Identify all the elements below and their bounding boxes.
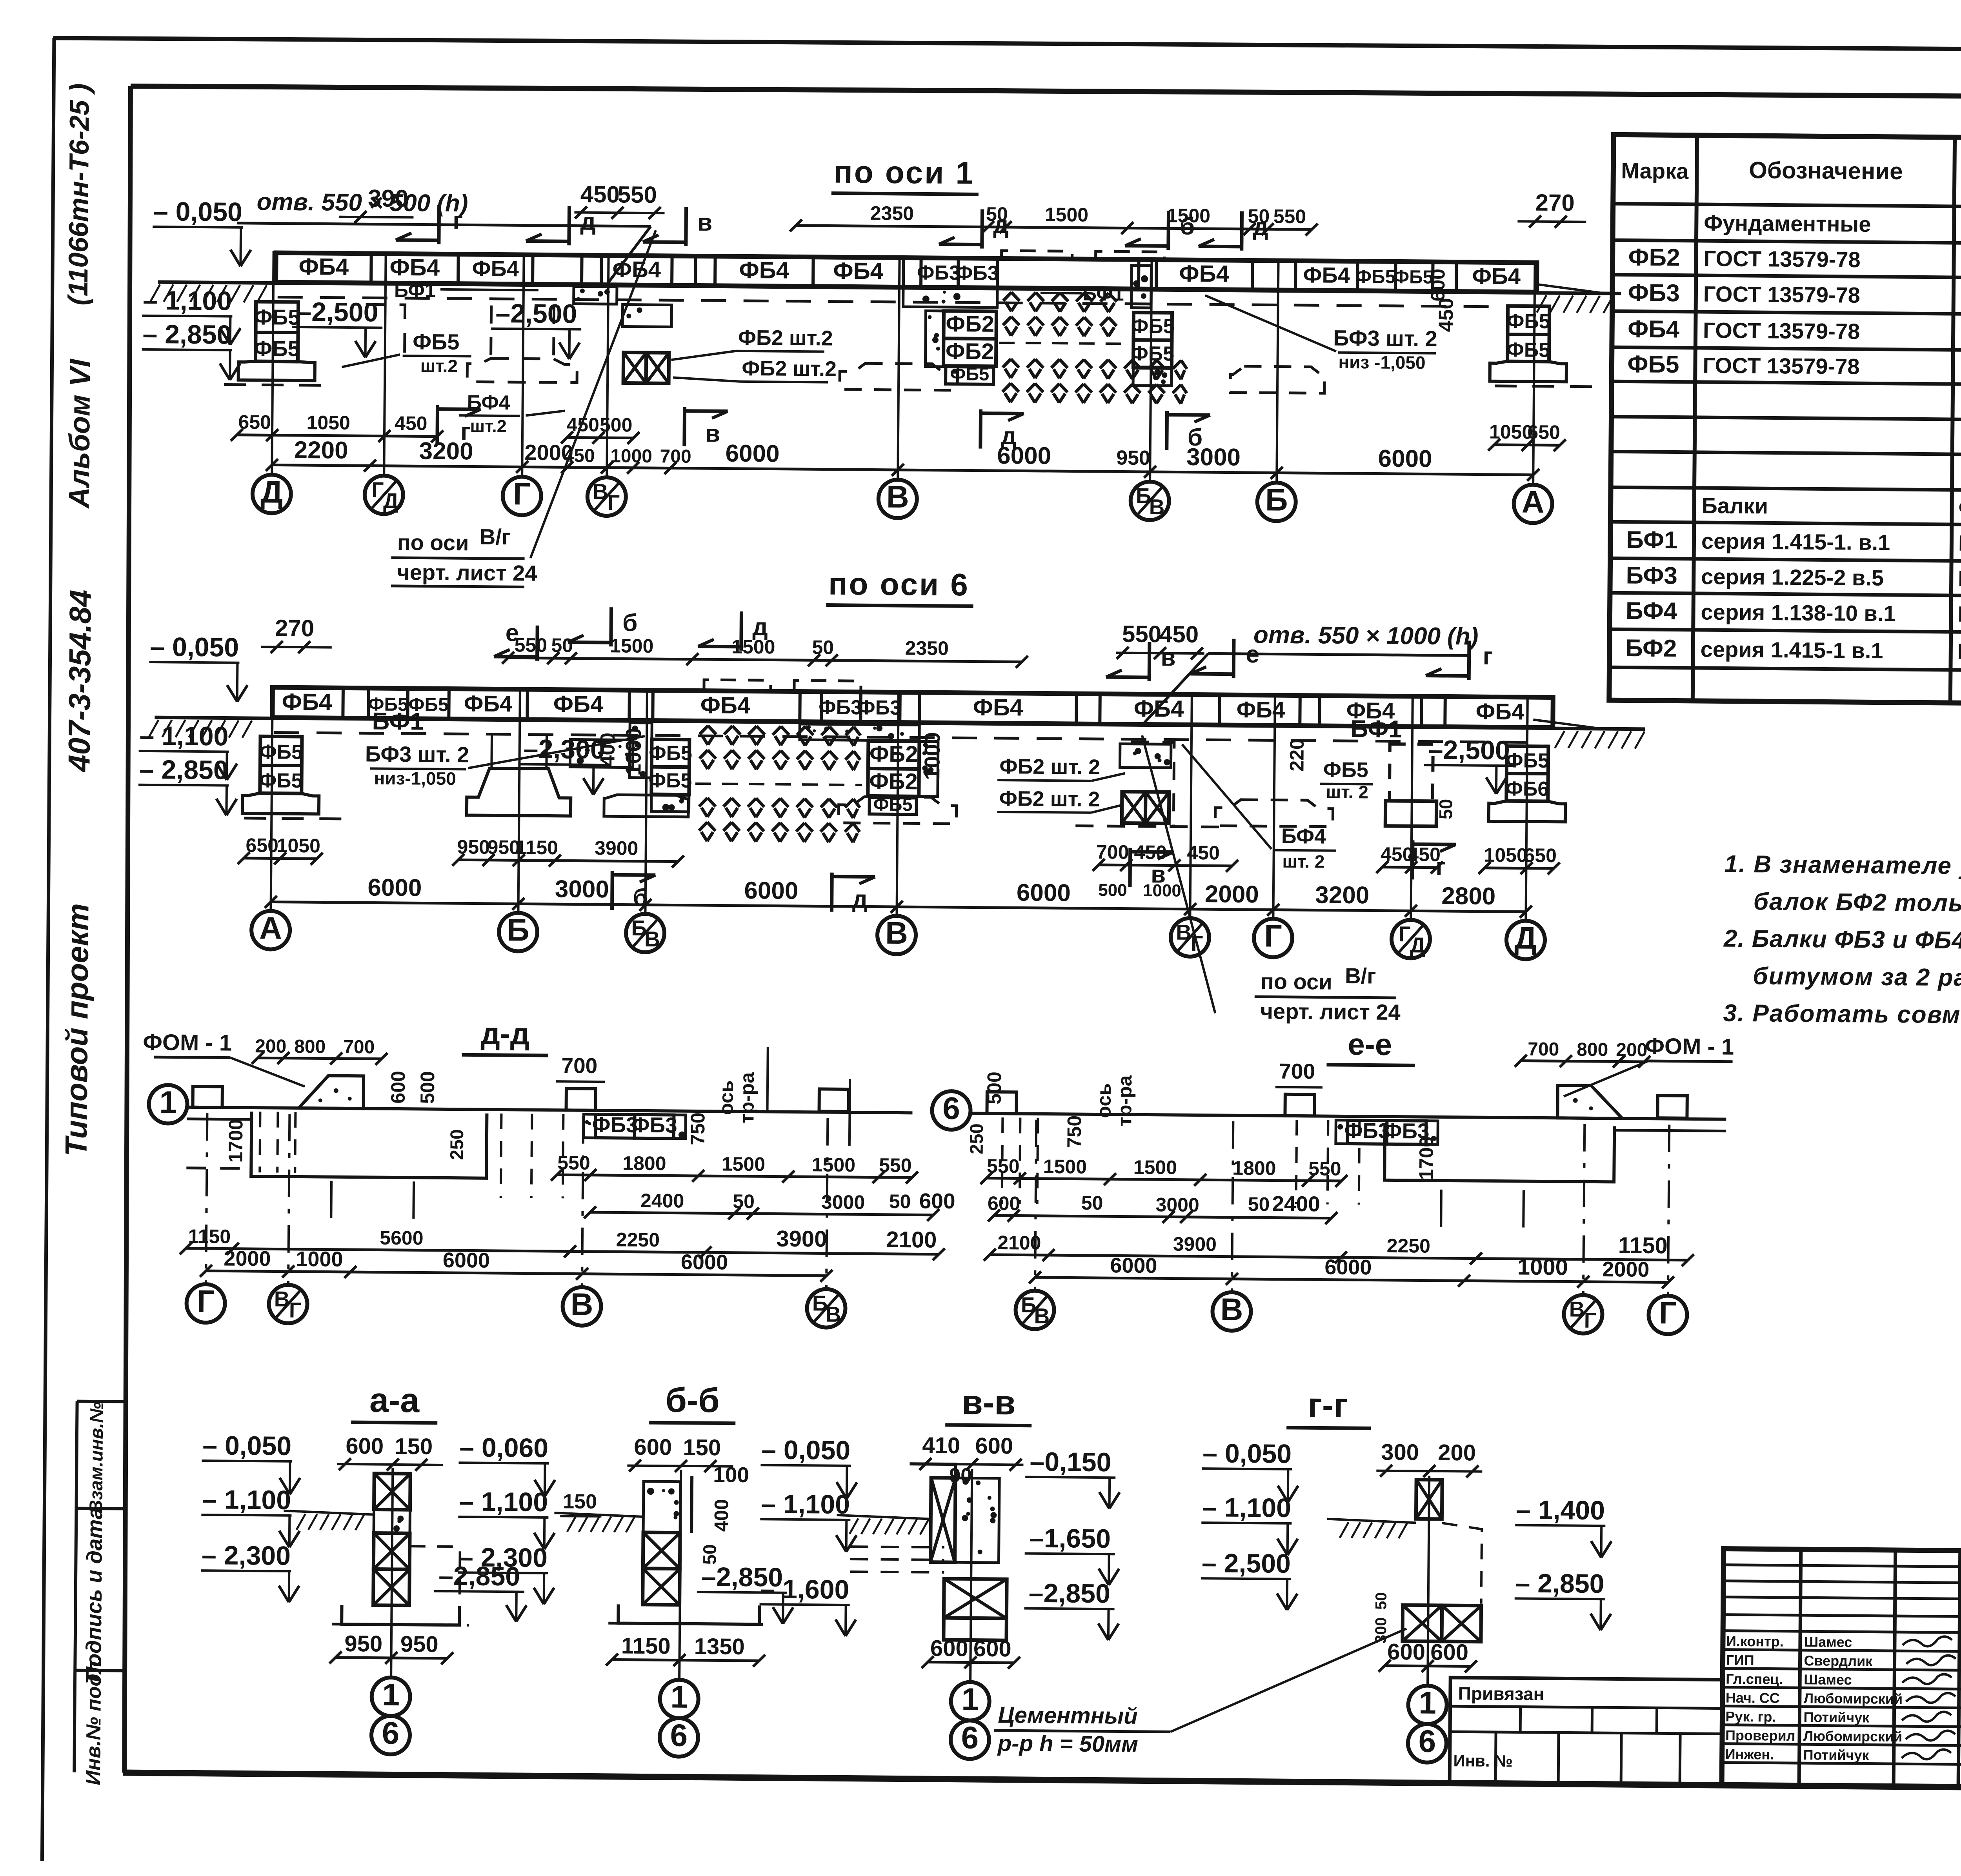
- axis1 label БФ4 шт2: [459, 391, 565, 437]
- svg-text:ФБ5: ФБ5: [1355, 266, 1396, 287]
- svg-text:1500: 1500: [1043, 1155, 1087, 1178]
- svg-text:В: В: [1220, 1292, 1243, 1326]
- ее dashed verticals: [1002, 1117, 1524, 1227]
- svg-text:ФБ4: ФБ4: [1472, 263, 1521, 289]
- svg-text:Инв. №: Инв. №: [1453, 1751, 1513, 1770]
- axis1 dotted beam strip В: [574, 285, 997, 307]
- svg-text:2350: 2350: [870, 202, 914, 224]
- svg-text:б: б: [1180, 213, 1195, 240]
- section В-В title: [945, 1383, 1032, 1426]
- svg-text:950: 950: [400, 1631, 438, 1657]
- svg-text:ФБ5: ФБ5: [1131, 342, 1174, 366]
- svg-text:Любомирский: Любомирский: [1804, 1690, 1903, 1707]
- svg-text:ФБ2 шт. 2: ФБ2 шт. 2: [999, 755, 1100, 779]
- svg-text:ФБ4: ФБ4: [1237, 697, 1285, 723]
- svg-text:д: д: [752, 613, 768, 640]
- svg-text:– 1,100: – 1,100: [761, 1489, 850, 1519]
- svg-text:950: 950: [457, 836, 490, 858]
- бб bottom dims 1150 1350: [606, 1633, 765, 1667]
- svg-text:Цементный: Цементный: [998, 1702, 1138, 1729]
- svg-text:Балка ФБ6-1: Балка ФБ6-1: [1958, 531, 1961, 557]
- гг axis circles: [1408, 1476, 1449, 1763]
- svg-text:1500: 1500: [722, 1153, 766, 1175]
- svg-text:3000: 3000: [1155, 1194, 1199, 1216]
- svg-text:(11066тн-Т6-25 ): (11066тн-Т6-25 ): [63, 83, 95, 306]
- svg-text:ФБ3: ФБ3: [955, 262, 999, 285]
- svg-text:270: 270: [275, 615, 315, 642]
- svg-text:600: 600: [988, 1192, 1021, 1215]
- svg-text:2000: 2000: [224, 1247, 271, 1271]
- svg-text:В: В: [885, 915, 908, 950]
- svg-text:50: 50: [1435, 799, 1456, 820]
- svg-text:Шамес: Шамес: [1804, 1634, 1852, 1650]
- section Г-Г title: [1286, 1385, 1371, 1428]
- svg-text:1: 1: [961, 1681, 979, 1716]
- аа bottom dims 950 950: [329, 1631, 453, 1665]
- svg-text:2250: 2250: [616, 1228, 660, 1251]
- svg-text:В: В: [1569, 1297, 1584, 1321]
- svg-text:– 1,100: – 1,100: [139, 721, 228, 751]
- svg-text:отв. 550 × 1000 (h): отв. 550 × 1000 (h): [1253, 621, 1479, 650]
- svg-text:300: 300: [1381, 1439, 1419, 1465]
- svg-text:д-д: д-д: [480, 1016, 530, 1051]
- axis6 отв 550x1000 leader: [1141, 620, 1478, 729]
- axis1 label БФ3 шт.2 низ-1,050: [1204, 295, 1437, 373]
- svg-text:1800: 1800: [1232, 1157, 1276, 1179]
- svg-text:2200: 2200: [294, 437, 348, 464]
- svg-text:ось: ось: [715, 1080, 737, 1115]
- дд dims 200 800 700: [252, 1036, 387, 1065]
- svg-text:–2,500: –2,500: [297, 297, 378, 328]
- svg-text:серия 1.415-1. в.1: серия 1.415-1. в.1: [1701, 529, 1890, 555]
- дд rotated dims: [224, 1051, 758, 1167]
- svg-text:500: 500: [417, 1071, 439, 1104]
- svg-text:Проверил: Проверил: [1725, 1727, 1795, 1744]
- дд dim chains: [180, 1149, 956, 1283]
- svg-text:ГОСТ 13579-78: ГОСТ 13579-78: [1703, 318, 1860, 344]
- гг elevation marks: [1201, 1438, 1612, 1630]
- svg-text:БФ1: БФ1: [372, 708, 424, 735]
- svg-text:3000: 3000: [555, 875, 609, 903]
- svg-text:черт. лист 24: черт. лист 24: [397, 560, 537, 586]
- axis6 ФБ2 stack В: [799, 724, 938, 815]
- svg-text:Марка: Марка: [1621, 158, 1689, 183]
- svg-text:ФБ2: ФБ2: [1628, 244, 1680, 271]
- svg-text:ФБ4: ФБ4: [298, 253, 349, 280]
- svg-text:2000: 2000: [1205, 881, 1259, 908]
- svg-text:ГОСТ 13579-78: ГОСТ 13579-78: [1703, 353, 1860, 379]
- svg-text:2400: 2400: [1272, 1192, 1320, 1216]
- svg-text:600: 600: [1387, 1639, 1425, 1665]
- svg-text:ФБ4: ФБ4: [1303, 262, 1350, 287]
- svg-text:а-а: а-а: [369, 1380, 420, 1419]
- svg-text:ФБ4: ФБ4: [973, 694, 1023, 721]
- axis6 Г/Д column: [1385, 735, 1514, 827]
- svg-text:ФБ5: ФБ5: [1323, 758, 1368, 782]
- svg-text:390: 390: [368, 185, 409, 212]
- svg-text:– 1,600: – 1,600: [760, 1574, 849, 1605]
- svg-text:ФБ2: ФБ2: [869, 768, 918, 794]
- axis1 dim above: 270 at A: [1517, 189, 1586, 228]
- svg-text:500: 500: [600, 414, 633, 436]
- notes text block: [1723, 851, 1961, 1032]
- axis6 section marks top: [494, 606, 1493, 684]
- svg-text:3. Работать совместно с: 3. Работать совместно с листом 22.: [1723, 1000, 1961, 1031]
- svg-text:5600: 5600: [380, 1227, 424, 1249]
- дд ФОМ-1 label: [143, 1030, 305, 1086]
- svg-text:отв. 550 × 500 (h): отв. 550 × 500 (h): [256, 188, 468, 217]
- svg-text:в: в: [697, 209, 713, 236]
- svg-text:– 0,050: – 0,050: [153, 197, 242, 227]
- svg-text:ГОСТ 13579-78: ГОСТ 13579-78: [1703, 246, 1861, 272]
- svg-text:В: В: [1034, 1304, 1050, 1328]
- svg-text:битумом за 2 раза.: битумом за 2 раза.: [1753, 963, 1961, 992]
- дд stub rect right: [767, 1047, 850, 1146]
- ее axis circles: [1015, 1119, 1688, 1334]
- svg-text:е-е: е-е: [1348, 1027, 1392, 1062]
- svg-text:2000: 2000: [1602, 1257, 1650, 1281]
- svg-text:г-г: г-г: [1308, 1385, 1348, 1425]
- ее foundation outline: [1384, 1125, 1726, 1183]
- svg-text:400: 400: [596, 733, 619, 767]
- axis1 dims above: 2350 50 1500 1500 50 550: [790, 202, 1318, 236]
- axis6 dims 550 450: [1116, 620, 1205, 659]
- axis6 vertical dim 1000: [621, 728, 1308, 783]
- svg-text:6000: 6000: [1110, 1254, 1157, 1277]
- svg-text:д: д: [1253, 213, 1268, 240]
- svg-text:по оси 6: по оси 6: [828, 566, 970, 602]
- svg-text:1150: 1150: [188, 1225, 231, 1248]
- svg-text:1500: 1500: [812, 1154, 856, 1176]
- svg-text:– 0,050: – 0,050: [150, 632, 239, 662]
- svg-text:410: 410: [922, 1433, 960, 1459]
- svg-text:50: 50: [1373, 1592, 1390, 1610]
- svg-text:ФБ5: ФБ5: [1506, 338, 1550, 362]
- svg-text:1800: 1800: [622, 1152, 666, 1175]
- svg-text:д: д: [852, 886, 868, 913]
- svg-text:ФБ5: ФБ5: [950, 363, 989, 384]
- svg-text:6: 6: [942, 1091, 960, 1126]
- svg-text:ФБ3: ФБ3: [858, 696, 901, 719]
- svg-text:тр-ра: тр-ра: [736, 1072, 758, 1124]
- svg-text:ФБ5: ФБ5: [259, 769, 303, 792]
- svg-text:6000: 6000: [1324, 1256, 1372, 1279]
- svg-text:ФБ4: ФБ4: [700, 692, 751, 719]
- svg-text:– 2,500: – 2,500: [1202, 1548, 1291, 1579]
- svg-text:ГИП: ГИП: [1726, 1652, 1754, 1669]
- svg-text:черт. лист 24: черт. лист 24: [1260, 999, 1401, 1024]
- svg-text:шт.2: шт.2: [420, 355, 458, 376]
- svg-text:1: 1: [1419, 1685, 1436, 1720]
- svg-text:Г: Г: [371, 477, 384, 502]
- axis1 footing Д: [224, 301, 331, 385]
- svg-text:г: г: [453, 207, 463, 234]
- svg-text:ФБ5: ФБ5: [254, 305, 300, 329]
- svg-text:1050: 1050: [1484, 844, 1528, 866]
- svg-text:450: 450: [566, 413, 599, 436]
- svg-text:500: 500: [1098, 881, 1127, 900]
- svg-text:800: 800: [1577, 1039, 1608, 1061]
- svg-text:ФБ3: ФБ3: [819, 696, 862, 719]
- аа axis circles 1 6: [371, 1468, 412, 1755]
- svg-text:650: 650: [246, 834, 278, 857]
- вв bottom dims 600 600: [922, 1636, 1020, 1669]
- svg-text:В: В: [825, 1302, 841, 1326]
- axis6 ground line with hatching: [149, 709, 1645, 749]
- гг bottom dims 600 600: [1379, 1639, 1477, 1672]
- svg-text:1: 1: [670, 1679, 688, 1714]
- axis1 dashed footing Г: [467, 298, 582, 382]
- svg-text:– 0,050: – 0,050: [202, 1430, 291, 1461]
- ее dim chains: [980, 1155, 1695, 1289]
- axis1 footing А: [1434, 298, 1605, 387]
- svg-text:Взам.инв.№: Взам.инв.№: [85, 1402, 107, 1514]
- svg-text:650: 650: [1527, 421, 1560, 444]
- svg-text:200: 200: [255, 1036, 287, 1057]
- дд foundation outline: [186, 1111, 487, 1178]
- svg-text:БФ3 шт. 2: БФ3 шт. 2: [365, 741, 469, 767]
- axis6 ФБ2 шт2 labels + X boxes: [997, 743, 1171, 823]
- svg-text:250: 250: [966, 1123, 987, 1154]
- svg-text:Г: Г: [197, 1284, 215, 1319]
- svg-text:Г: Г: [1659, 1295, 1677, 1330]
- svg-text:550: 550: [618, 181, 657, 208]
- axis6 axis circles: [251, 685, 1547, 959]
- table rows: [1625, 210, 1961, 669]
- svg-text:2350: 2350: [905, 637, 949, 659]
- бб column: [553, 1469, 770, 1624]
- svg-text:100: 100: [713, 1462, 749, 1487]
- svg-text:Шамес: Шамес: [1804, 1671, 1852, 1688]
- svg-text:В: В: [570, 1286, 593, 1321]
- svg-text:6000: 6000: [681, 1250, 728, 1274]
- ее concrete patch: [1557, 1085, 1623, 1118]
- left column boxes: Подпись и дата / Инв № подл: [74, 1401, 127, 1786]
- svg-text:1700: 1700: [1415, 1136, 1437, 1180]
- svg-text:600: 600: [387, 1071, 409, 1104]
- svg-text:д: д: [993, 211, 1009, 238]
- svg-text:ФБ5: ФБ5: [254, 336, 300, 361]
- svg-text:– 2,850: – 2,850: [1515, 1568, 1604, 1599]
- svg-text:2000: 2000: [524, 440, 573, 465]
- svg-text:ФБ4: ФБ4: [389, 254, 440, 281]
- вв axis circles: [951, 1469, 991, 1759]
- axis1 dashed pits left: [292, 297, 405, 358]
- svg-text:Г: Г: [289, 1298, 302, 1322]
- svg-text:Альбом VI: Альбом VI: [63, 358, 96, 509]
- svg-text:ФБ2: ФБ2: [946, 338, 994, 364]
- svg-text:3200: 3200: [419, 437, 473, 465]
- svg-text:ФБ2 шт. 2: ФБ2 шт. 2: [999, 787, 1100, 811]
- svg-text:1000: 1000: [621, 728, 646, 776]
- svg-text:700: 700: [1096, 841, 1129, 863]
- title block grid: [1722, 1549, 1961, 1792]
- дд small stubs on line: [193, 1084, 849, 1112]
- svg-text:Г: Г: [608, 490, 620, 515]
- svg-text:б: б: [622, 609, 638, 636]
- svg-text:550: 550: [987, 1155, 1020, 1177]
- axis6 crosshatch big: [695, 680, 863, 842]
- svg-text:750: 750: [1063, 1115, 1086, 1148]
- svg-text:1050: 1050: [277, 835, 320, 857]
- axis1 main dim chain 6000s: [266, 436, 1539, 481]
- svg-text:6000: 6000: [443, 1248, 490, 1272]
- axis6 dotted block near Г: [570, 739, 633, 767]
- бб top dims 600 150 100: [627, 1434, 749, 1487]
- svg-text:Обозначение: Обозначение: [1749, 157, 1903, 184]
- svg-text:600: 600: [1430, 1639, 1468, 1665]
- svg-text:1: 1: [382, 1677, 400, 1712]
- svg-text:1000: 1000: [1517, 1254, 1568, 1280]
- svg-text:650: 650: [1524, 844, 1557, 867]
- svg-text:400: 400: [710, 1499, 733, 1532]
- svg-text:– 1,400: – 1,400: [1516, 1495, 1605, 1525]
- svg-text:3200: 3200: [1315, 881, 1369, 909]
- svg-text:б-б: б-б: [665, 1380, 720, 1419]
- svg-text:6000: 6000: [725, 440, 779, 468]
- svg-text:В: В: [593, 479, 608, 504]
- svg-text:– 2,850: – 2,850: [142, 319, 231, 350]
- svg-text:шт. 2: шт. 2: [1326, 782, 1368, 802]
- svg-text:Фундаментные: Фундаментные: [1958, 495, 1961, 521]
- svg-text:по оси: по оси: [1261, 969, 1332, 994]
- svg-text:3000: 3000: [1186, 444, 1241, 471]
- svg-text:1700: 1700: [224, 1119, 247, 1163]
- svg-text:– 2,300: – 2,300: [458, 1542, 548, 1573]
- svg-text:– 0,050: – 0,050: [1202, 1438, 1292, 1469]
- section а-а title: [351, 1380, 438, 1423]
- svg-text:6: 6: [670, 1718, 688, 1753]
- svg-text:1000: 1000: [610, 446, 652, 467]
- axis1 section marks bottom: [437, 405, 1210, 451]
- svg-text:ФБ2 шт.2: ФБ2 шт.2: [742, 357, 837, 381]
- svg-text:700: 700: [561, 1053, 597, 1078]
- margin stamp: (11066тн-Т6-25): [63, 83, 95, 306]
- svg-text:150: 150: [395, 1434, 433, 1459]
- axis1 ФБ5 stack at Б/В: [1131, 266, 1175, 386]
- svg-text:по оси: по оси: [397, 530, 469, 555]
- вв column structure: [836, 1463, 1008, 1640]
- svg-text:балок БФ2 только для схемы: балок БФ2 только для схемы 110-4В.: [1753, 888, 1961, 919]
- axis1 dim chain row1: [231, 411, 1566, 474]
- svg-text:БФ4: БФ4: [1626, 597, 1677, 625]
- svg-text:600: 600: [1427, 269, 1449, 302]
- дд axis start circle 1: [149, 1084, 913, 1129]
- svg-text:450: 450: [1159, 621, 1199, 648]
- svg-text:Д: Д: [260, 474, 283, 509]
- svg-text:Б: Б: [507, 912, 529, 947]
- svg-text:в: в: [1161, 644, 1176, 671]
- ее rotated dims: [966, 1056, 1438, 1180]
- svg-text:2100: 2100: [886, 1227, 937, 1253]
- svg-text:–0,150: –0,150: [1030, 1447, 1111, 1478]
- svg-text:ФБ5: ФБ5: [649, 742, 692, 765]
- axis6 left elevation marks: [138, 632, 248, 815]
- svg-text:д: д: [580, 208, 596, 235]
- svg-text:Г: Г: [1584, 1308, 1597, 1332]
- ее small stubs: [987, 1090, 1687, 1119]
- svg-text:6000: 6000: [744, 877, 798, 904]
- вв elevation marks: [759, 1435, 1120, 1640]
- svg-text:550: 550: [557, 1152, 590, 1174]
- axis1 left elevation marks: [142, 197, 251, 380]
- вв top dims 410 600 90: [917, 1432, 1024, 1487]
- axis1 dashed footing Б: [1230, 366, 1325, 393]
- svg-text:600: 600: [346, 1433, 384, 1459]
- svg-text:1150: 1150: [1618, 1232, 1668, 1258]
- svg-text:В/г: В/г: [1345, 963, 1376, 988]
- svg-text:В: В: [274, 1287, 290, 1311]
- axis1 dashed steps above beam: [1002, 251, 1164, 261]
- svg-text:6: 6: [961, 1720, 979, 1755]
- svg-text:3900: 3900: [1173, 1233, 1217, 1256]
- бб axis circles: [660, 1607, 699, 1757]
- svg-text:– 0,060: – 0,060: [459, 1432, 548, 1463]
- svg-text:2800: 2800: [1441, 883, 1495, 910]
- svg-text:Г: Г: [513, 476, 531, 511]
- svg-text:шт.2: шт.2: [470, 416, 507, 436]
- specification table grid: [1609, 135, 1961, 707]
- svg-text:в-в: в-в: [962, 1383, 1016, 1422]
- svg-text:Блок ФБС 9.3.6-т: Блок ФБС 9.3.6-т: [1959, 355, 1961, 381]
- svg-text:3900: 3900: [776, 1226, 827, 1252]
- axis6 footing Д: [1489, 746, 1566, 822]
- svg-text:220: 220: [1286, 739, 1308, 772]
- svg-text:ФБ4: ФБ4: [833, 258, 884, 284]
- svg-text:ФБ2: ФБ2: [946, 311, 994, 337]
- svg-text:БФ1: БФ1: [1350, 715, 1402, 743]
- svg-text:БФ3: БФ3: [1626, 562, 1677, 590]
- svg-text:650: 650: [238, 411, 271, 433]
- svg-text:500: 500: [983, 1072, 1006, 1104]
- дд dashed verticals: [259, 1112, 563, 1220]
- svg-text:450: 450: [580, 181, 620, 208]
- аа elevation marks: [200, 1430, 528, 1622]
- svg-text:750: 750: [687, 1112, 709, 1145]
- svg-text:БФ1: БФ1: [1082, 283, 1124, 305]
- svg-text:50: 50: [1081, 1192, 1103, 1214]
- axis6 footing Б solid trapezoid: [467, 731, 619, 816]
- svg-text:БФ1: БФ1: [1626, 526, 1678, 554]
- svg-text:550: 550: [1122, 620, 1162, 647]
- svg-text:450: 450: [395, 412, 427, 435]
- axis6 dim row1: [237, 834, 1560, 903]
- svg-text:– 1,100: – 1,100: [202, 1485, 291, 1515]
- svg-text:6000: 6000: [367, 874, 422, 901]
- axis1 dims above beam: 390: [339, 185, 414, 224]
- section title д-д: [462, 1016, 549, 1055]
- svg-text:Свердлик: Свердлик: [1804, 1652, 1873, 1669]
- ее dims 700 800 200: [1515, 1039, 1650, 1068]
- svg-text:ФБ2: ФБ2: [870, 741, 918, 767]
- svg-text:250: 250: [446, 1129, 467, 1160]
- svg-text:50: 50: [889, 1190, 911, 1212]
- svg-text:Гл.спец.: Гл.спец.: [1726, 1671, 1783, 1687]
- svg-text:ГОСТ 13579-78: ГОСТ 13579-78: [1703, 282, 1861, 308]
- svg-text:Потийчук: Потийчук: [1803, 1747, 1870, 1763]
- svg-text:1050: 1050: [1489, 421, 1533, 443]
- axis6 footing А: [242, 736, 355, 819]
- svg-text:150: 150: [683, 1435, 721, 1461]
- svg-text:ФБ4: ФБ4: [464, 691, 513, 717]
- svg-text:950: 950: [344, 1631, 382, 1657]
- svg-text:серия 1.225-2 в.5: серия 1.225-2 в.5: [1701, 564, 1884, 590]
- svg-text:1000: 1000: [1143, 881, 1181, 901]
- svg-text:ФОМ - 1: ФОМ - 1: [143, 1030, 232, 1056]
- svg-text:450: 450: [1435, 298, 1458, 332]
- table header texts: [1621, 147, 1961, 208]
- svg-text:550: 550: [1273, 205, 1306, 227]
